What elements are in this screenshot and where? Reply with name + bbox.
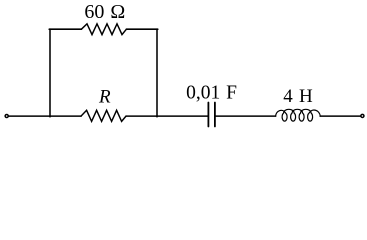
resistor R zigzag [81,110,126,121]
wire: left terminal to node A [9,115,50,117]
wire: node A to resistor R [50,115,81,117]
wire: resistor R to node B [126,115,157,117]
svg-text:0,01 F: 0,01 F [186,83,237,104]
resistor 60ohm zigzag [81,24,126,35]
capacitor C1 left plate [207,103,209,127]
inductor L1 coil [276,109,321,121]
capacitor C1 right plate [214,103,216,127]
wire: top branch right [126,28,157,30]
svg-text:4 H: 4 H [283,86,313,107]
wire: inductor to right terminal [320,115,360,117]
svg-text:R: R [98,86,111,107]
svg-text:60 Ω: 60 Ω [84,1,125,23]
left terminal [5,114,8,117]
wire: capacitor to inductor [215,115,276,117]
wire: left vertical (node A up to top branch) [49,29,51,117]
wire: right vertical (top branch down to node B) [156,29,158,117]
wire: node B to capacitor [157,115,208,117]
right terminal [361,114,364,117]
wire: top branch left [49,28,81,30]
